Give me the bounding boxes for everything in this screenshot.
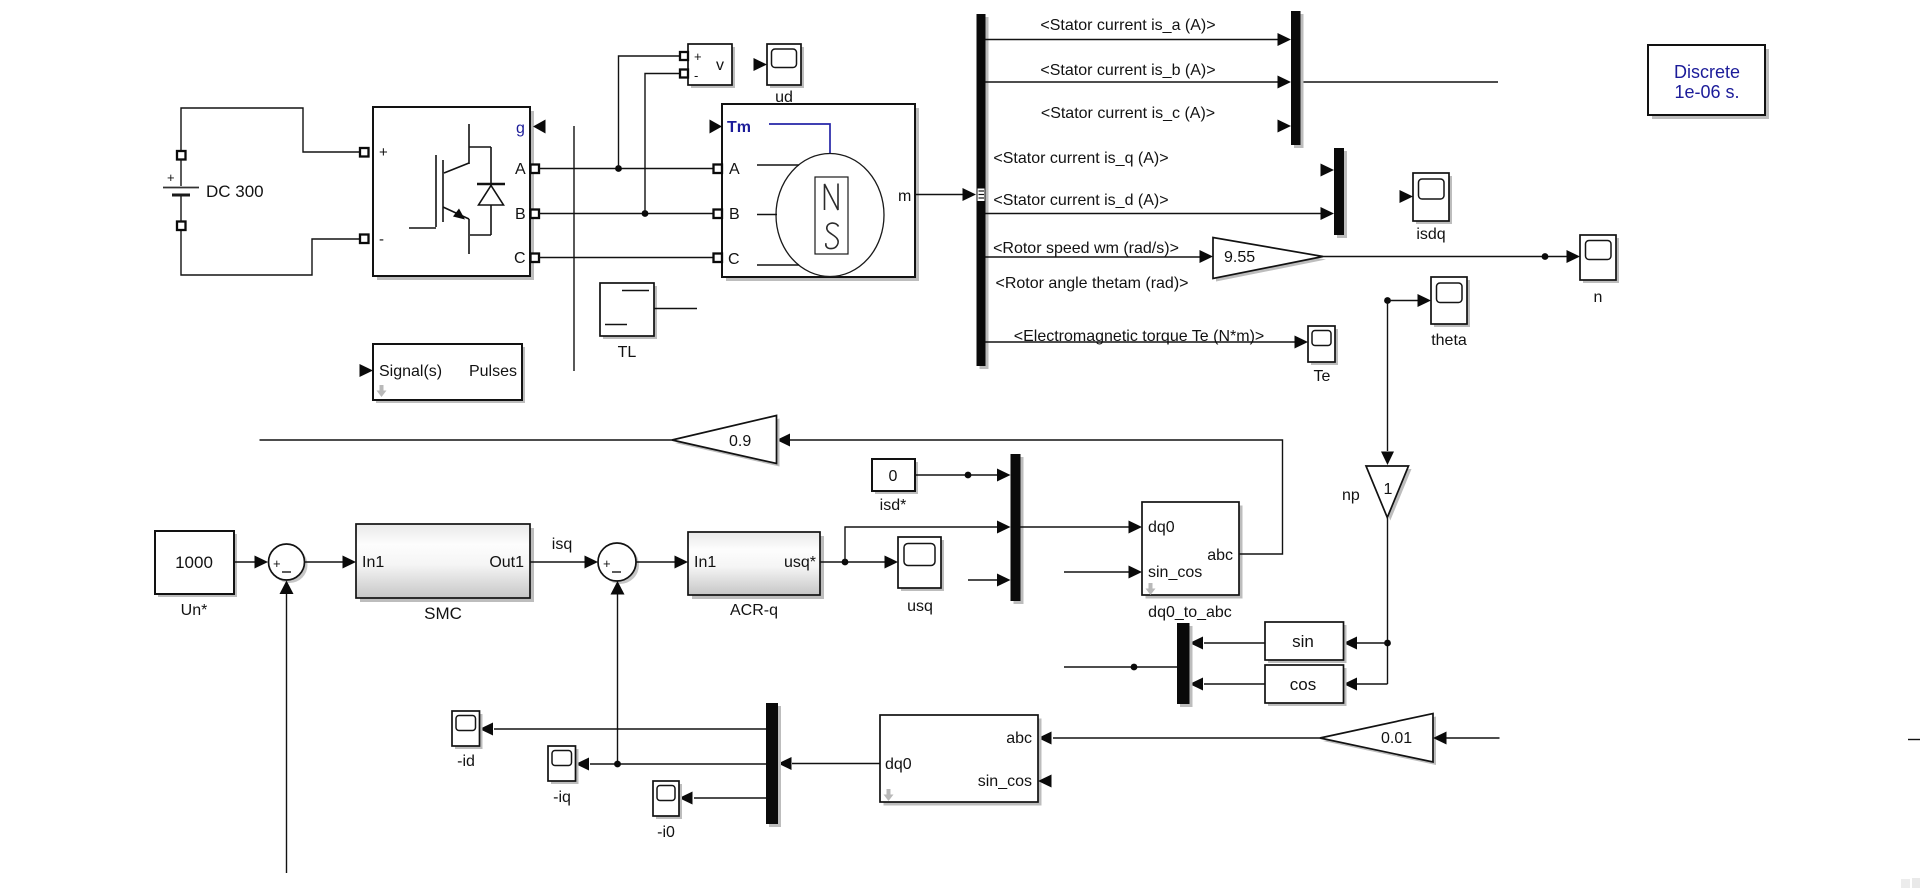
svg-text:A: A <box>729 161 740 178</box>
svg-text:C: C <box>514 250 526 267</box>
wire sum2 to ACR-q <box>636 561 675 563</box>
wire theta dot down to np gain <box>1387 301 1389 452</box>
svg-text:-: - <box>694 68 698 83</box>
gain np 1 <box>1366 466 1412 521</box>
arrow into gain 9.55 <box>1200 250 1214 263</box>
arrow into scope n <box>1567 250 1581 263</box>
wire v+ sense <box>619 56 681 169</box>
wire abc output up to 0.9 gain <box>790 440 1283 554</box>
svg-text:m: m <box>898 188 911 205</box>
dangling feedback wire below sum1 <box>286 594 288 873</box>
wire dot to theta scope <box>1388 300 1420 302</box>
wire 0 to mux3 <box>915 474 998 476</box>
wire into 0.01 (dangling right) <box>1447 737 1500 739</box>
wire mux3 to dq0_to_abc <box>1021 526 1131 528</box>
svg-text:-i0: -i0 <box>657 824 675 841</box>
wire Te to scope <box>986 341 1296 343</box>
dangling wire from TL output <box>654 308 697 310</box>
wire is_d to mux2 <box>986 213 1322 215</box>
wire is_a to mux <box>986 39 1279 41</box>
svg-text:B: B <box>729 206 740 223</box>
arrow stub into mux3 <box>997 574 1011 587</box>
scope Te <box>1308 326 1338 385</box>
arrow is_b <box>1278 76 1292 89</box>
svg-text:Pulses: Pulses <box>469 363 517 380</box>
wire inverter B to motor B <box>539 213 714 215</box>
svg-text:usq*: usq* <box>784 554 816 571</box>
scope theta <box>1431 277 1470 349</box>
inverter port squares <box>360 148 539 262</box>
junction dot on mux4 output <box>1131 664 1138 671</box>
wire SMC out to sum2 <box>530 561 585 563</box>
svg-text:0: 0 <box>889 468 898 485</box>
cos block <box>1265 665 1347 706</box>
junction dot sin branch <box>1384 640 1391 647</box>
arrow into sum2 <box>585 556 599 569</box>
subsystem dq0_to_abc <box>1142 502 1243 621</box>
svg-text:In1: In1 <box>694 554 716 571</box>
wire np output down <box>1387 518 1389 685</box>
scope isdq <box>1400 173 1453 243</box>
svg-text:+: + <box>603 556 611 571</box>
svg-text:Un*: Un* <box>181 602 208 619</box>
scope usq <box>898 537 944 615</box>
svg-text:+: + <box>167 170 175 185</box>
arrow up into sum1 bottom <box>280 581 294 595</box>
wire sum1 to SMC <box>305 561 344 563</box>
mux2 dq <box>1334 148 1347 238</box>
svg-text:+: + <box>273 556 281 571</box>
arrow sin into mux4 <box>1190 637 1204 650</box>
wire mux5 to -id <box>494 728 766 730</box>
scope -id <box>452 711 483 770</box>
svg-text:<Rotor speed wm (rad/s)>: <Rotor speed wm (rad/s)> <box>993 240 1179 257</box>
arrow cos into mux4 <box>1190 678 1204 691</box>
arrow into usq scope <box>885 556 899 569</box>
svg-text:abc: abc <box>1207 547 1233 564</box>
arrow is_q (no wire) <box>1321 164 1335 177</box>
wire to sin input <box>1357 642 1388 644</box>
svg-text:+: + <box>379 144 388 161</box>
scope -i0 <box>653 781 682 841</box>
arrow into -i0 <box>679 792 693 805</box>
constant isd* 0 <box>872 459 918 514</box>
svg-text:dq0: dq0 <box>885 756 912 773</box>
arrow into theta <box>1418 294 1432 307</box>
svg-text:<Stator current is_b (A)>: <Stator current is_b (A)> <box>1040 62 1215 79</box>
wire inverter A to motor A <box>539 168 714 170</box>
battery DC 300 <box>163 151 264 230</box>
wire ACR-q out to usq scope <box>820 561 885 563</box>
gain 9.55 <box>1213 238 1326 282</box>
scope n <box>1580 235 1619 306</box>
mux3 <box>1011 454 1024 604</box>
svg-text:v: v <box>716 57 724 74</box>
wire battery- to inverter- <box>181 229 361 275</box>
wire mux5 to -iq <box>590 763 766 765</box>
arrow into -iq <box>576 758 590 771</box>
wire stub at right edge <box>1908 739 1920 741</box>
svg-text:DC 300: DC 300 <box>206 182 264 201</box>
signal builder block Signal(s)/Pulses <box>360 344 526 403</box>
arrow is_d <box>1321 207 1335 220</box>
svg-text:isq: isq <box>552 536 572 553</box>
junction dot theta <box>1384 297 1391 304</box>
input arrow g (unconnected) <box>533 120 546 134</box>
svg-text:Tm: Tm <box>727 119 751 136</box>
wire mux1 output (dangling) <box>1301 81 1499 83</box>
watermark bottom right <box>1901 878 1920 888</box>
svg-text:-: - <box>379 231 384 248</box>
svg-text:isd*: isd* <box>880 497 907 514</box>
svg-text:+: + <box>694 49 702 64</box>
feedback wire from iq line up to sum2 <box>617 595 619 765</box>
wire to cos input <box>1357 683 1388 685</box>
svg-text:Te: Te <box>1314 368 1331 385</box>
arrow is_c (no wire) <box>1278 120 1292 133</box>
arrow is_a <box>1278 33 1292 46</box>
arrow usq into mux3 <box>997 521 1011 534</box>
svg-text:dq0_to_abc: dq0_to_abc <box>1148 604 1232 621</box>
wire wm to gain <box>986 256 1201 258</box>
arrow into ACR-q <box>675 556 689 569</box>
wire motor m to bus selector <box>915 194 963 196</box>
junction dot on A wire <box>615 165 622 172</box>
constant Un* 1000 <box>155 531 237 619</box>
svg-text:-iq: -iq <box>553 789 571 806</box>
wire gain 9.55 to scope n <box>1323 256 1567 258</box>
wire dq0 out to mux5 <box>792 763 880 765</box>
svg-text:-id: -id <box>457 753 475 770</box>
wire 0.01 out to abc input <box>1053 737 1320 739</box>
svg-text:1000: 1000 <box>175 553 213 572</box>
mux1 abc <box>1291 11 1304 148</box>
arrow into sin <box>1344 637 1358 650</box>
sin block <box>1265 622 1347 663</box>
arrow sin_cos input (unconnected) <box>1038 775 1052 788</box>
svg-text:abc: abc <box>1006 730 1032 747</box>
svg-text:1: 1 <box>1384 481 1393 498</box>
voltage measurement block v <box>680 44 735 88</box>
svg-text:ACR-q: ACR-q <box>730 602 778 619</box>
arrow into sin_cos input <box>1129 566 1143 579</box>
sum1 <box>269 544 308 583</box>
svg-text:9.55: 9.55 <box>1224 249 1255 266</box>
arrow isd into mux3 <box>997 469 1011 482</box>
wire cos out to mux4 <box>1204 683 1265 685</box>
svg-text:<Stator current is_d (A)>: <Stator current is_d (A)> <box>993 192 1168 209</box>
arrow into cos <box>1344 678 1358 691</box>
wire inverter C to motor C <box>539 257 714 259</box>
gain 0.01 <box>1320 714 1436 766</box>
mux5 demux <box>766 703 781 827</box>
bus selector bar <box>977 14 989 369</box>
svg-text:<Stator current is_a (A)>: <Stator current is_a (A)> <box>1040 17 1215 34</box>
input arrow Tm (unconnected) <box>710 120 723 134</box>
arrow into 0.01 gain <box>1433 732 1447 745</box>
inverter block (Universal Bridge) <box>373 107 534 280</box>
svg-text:<Stator current is_q (A)>: <Stator current is_q (A)> <box>993 150 1168 167</box>
svg-text:n: n <box>1594 289 1603 306</box>
svg-text:B: B <box>515 206 526 223</box>
svg-text:Out1: Out1 <box>489 554 524 571</box>
svg-text:sin_cos: sin_cos <box>978 773 1032 790</box>
svg-text:1e-06 s.: 1e-06 s. <box>1674 82 1739 102</box>
subsystem abc_to_dq0 <box>880 715 1042 806</box>
junction dot on n wire <box>1542 253 1549 260</box>
subsystem ACR-q <box>688 532 824 619</box>
svg-text:Signal(s): Signal(s) <box>379 363 442 380</box>
arrow into -id <box>480 723 494 736</box>
svg-text:sin_cos: sin_cos <box>1148 564 1202 581</box>
arrow into sum1 <box>255 556 269 569</box>
wire battery+ to inverter+ <box>181 108 361 152</box>
arrow into mux5 <box>778 757 792 770</box>
stub wire into sin_cos input <box>1064 571 1130 573</box>
svg-text:<Rotor angle thetam (rad)>: <Rotor angle thetam (rad)> <box>996 275 1189 292</box>
arrow into SMC <box>343 556 357 569</box>
svg-text:C: C <box>728 251 740 268</box>
svg-text:SMC: SMC <box>424 604 462 623</box>
svg-text:g: g <box>516 120 525 137</box>
wire mux4 output (dangling) <box>1064 666 1177 668</box>
wire mux5 to -i0 <box>694 797 766 799</box>
junction dot on iq wire <box>614 761 621 768</box>
arrow into 0.9 gain <box>777 434 791 447</box>
svg-text:0.01: 0.01 <box>1381 730 1412 747</box>
svg-text:isdq: isdq <box>1416 226 1445 243</box>
arrow into dq0 input <box>1129 521 1143 534</box>
wire v- sense <box>645 74 680 214</box>
svg-text:np: np <box>1342 487 1360 504</box>
scope -iq <box>548 746 579 806</box>
arrow into bus selector <box>963 188 977 201</box>
dangling wire from 0.9 output <box>260 439 673 441</box>
TL step block <box>600 283 657 361</box>
svg-text:dq0: dq0 <box>1148 519 1175 536</box>
svg-text:theta: theta <box>1431 332 1467 349</box>
dangling wire from Pulses level up to g level <box>573 126 575 371</box>
subsystem SMC <box>356 524 534 623</box>
wire 1000 to sum1 <box>234 561 255 563</box>
svg-text:sin: sin <box>1292 632 1314 651</box>
wire is_b to mux <box>986 81 1279 83</box>
svg-text:<Stator current is_c (A)>: <Stator current is_c (A)> <box>1041 105 1215 122</box>
arrow into abc input of abc_to_dq0 <box>1038 732 1052 745</box>
sum2 <box>598 543 639 584</box>
arrow into Te <box>1295 336 1309 349</box>
gain 0.9 <box>672 416 780 467</box>
stub wire third input <box>968 579 998 581</box>
svg-text:In1: In1 <box>362 554 384 571</box>
junction dot isd wire <box>965 472 972 479</box>
svg-text:usq: usq <box>907 598 933 615</box>
svg-text:A: A <box>515 161 526 178</box>
discrete solver box <box>1648 45 1769 119</box>
svg-text:TL: TL <box>618 344 637 361</box>
wire usq dot up to mux3 <box>845 527 998 562</box>
PMSM motor block <box>714 104 920 281</box>
wire sin out to mux4 <box>1204 642 1265 644</box>
junction dot on B wire <box>642 210 649 217</box>
inverter IGBT + diode icon <box>409 124 505 254</box>
arrow down into np gain <box>1381 452 1394 466</box>
scope ud <box>754 44 805 106</box>
svg-text:cos: cos <box>1290 675 1316 694</box>
junction dot usq <box>842 559 849 566</box>
svg-text:0.9: 0.9 <box>729 433 751 450</box>
arrow up into sum2 bottom <box>611 581 625 595</box>
mux4 sin_cos <box>1177 623 1193 707</box>
svg-text:Discrete: Discrete <box>1674 62 1740 82</box>
